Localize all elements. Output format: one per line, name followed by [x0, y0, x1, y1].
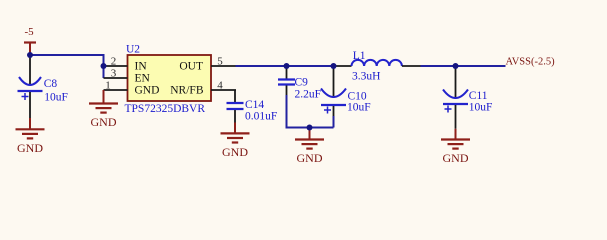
svg-text:C8: C8 [44, 78, 58, 90]
svg-text:U2: U2 [126, 44, 140, 56]
wire C8 to ground [29, 118, 31, 129]
pin 3 EN [104, 67, 151, 84]
svg-text:GND: GND [91, 115, 117, 129]
svg-text:C11: C11 [469, 90, 488, 102]
junction node -5/C8 [27, 52, 33, 58]
svg-text:10uF: 10uF [44, 92, 68, 104]
svg-text:4: 4 [217, 79, 223, 91]
ground below C8 [16, 129, 45, 155]
svg-text:L1: L1 [353, 50, 366, 62]
pin 1 GND [104, 79, 160, 96]
svg-text:OUT: OUT [179, 61, 203, 73]
junction node C9 tap [284, 63, 290, 69]
svg-text:2.2uF: 2.2uF [295, 88, 322, 100]
wire C11 to ground [455, 129, 457, 140]
capacitor C8 [18, 55, 68, 118]
wire -5 rail vertical to pins [103, 54, 105, 78]
svg-text:GND: GND [222, 145, 248, 159]
junction node C11 tap [453, 63, 459, 69]
wire OUT net [236, 65, 337, 67]
svg-text:1: 1 [105, 79, 111, 91]
svg-text:-5: -5 [25, 26, 35, 38]
capacitor C9 [278, 66, 321, 100]
svg-text:GND: GND [17, 141, 43, 155]
capacitor C11 [443, 66, 492, 129]
capacitor C10 [321, 66, 371, 128]
wire C14 to ground [234, 123, 236, 134]
svg-text:GND: GND [135, 85, 160, 97]
svg-text:IN: IN [135, 61, 148, 73]
svg-text:GND: GND [297, 151, 323, 165]
svg-text:EN: EN [135, 73, 151, 85]
wire bottom tap to ground [309, 128, 311, 140]
junction node bottom ground tap [307, 125, 313, 131]
svg-text:AVSS(-2.5): AVSS(-2.5) [506, 57, 556, 68]
svg-text:NR/FB: NR/FB [170, 85, 204, 97]
svg-text:5: 5 [217, 55, 223, 67]
svg-text:C9: C9 [295, 76, 309, 88]
ground below pin 1 [89, 104, 118, 130]
svg-text:TPS72325DBVR: TPS72325DBVR [125, 103, 206, 115]
ground below C11 [441, 140, 470, 166]
wire L1 to AVSS [421, 65, 506, 67]
wire -5 rail horizontal [30, 54, 104, 56]
regulator IC U2 TPS72325DBVR body [125, 44, 212, 115]
wire C9 bottom [287, 95, 334, 128]
svg-text:3: 3 [111, 67, 117, 79]
pin 2 IN [104, 55, 148, 72]
svg-text:0.01uF: 0.01uF [245, 110, 277, 122]
svg-text:GND: GND [443, 151, 469, 165]
wire pin1 to ground [103, 90, 105, 104]
inductor L1 [334, 50, 421, 82]
junction node C10 tap [331, 63, 337, 69]
ground below C14 [221, 133, 250, 159]
capacitor C14 [227, 90, 278, 123]
svg-text:C14: C14 [245, 99, 264, 111]
svg-text:10uF: 10uF [347, 102, 371, 114]
ground below C9/C10 [295, 140, 324, 166]
pin 5 OUT [179, 55, 235, 72]
svg-text:3.3uH: 3.3uH [352, 70, 380, 82]
svg-text:2: 2 [111, 55, 117, 67]
svg-text:10uF: 10uF [469, 102, 493, 114]
pin 4 NR/FB [170, 79, 236, 96]
power port -5 [24, 26, 36, 53]
junction node pin2 [101, 63, 107, 69]
